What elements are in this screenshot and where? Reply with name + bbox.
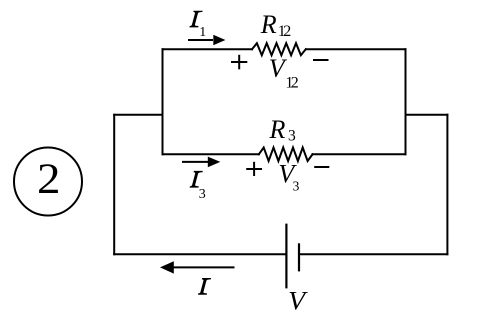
svg-text:R: R xyxy=(260,10,277,39)
svg-text:2: 2 xyxy=(37,156,61,203)
svg-text:3: 3 xyxy=(199,187,206,202)
svg-text:1: 1 xyxy=(199,25,206,40)
svg-text:R: R xyxy=(269,115,286,144)
svg-text:V: V xyxy=(288,287,308,316)
svg-text:3: 3 xyxy=(293,178,300,193)
svg-text:3: 3 xyxy=(288,127,296,144)
svg-text:12: 12 xyxy=(285,75,298,92)
svg-text:12: 12 xyxy=(278,23,291,40)
